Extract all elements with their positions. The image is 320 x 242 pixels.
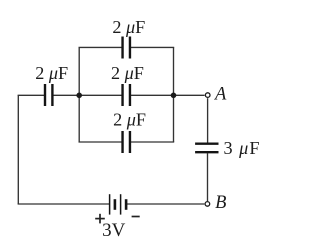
node: left junction dot	[76, 93, 82, 99]
wire: bottom branch right segment	[131, 141, 174, 143]
wire: node A down to C5 top plate	[207, 98, 209, 142]
wire: middle branch left segment	[79, 94, 121, 96]
wire: right junction to node A	[174, 94, 205, 96]
svg-text:2 μF: 2 μF	[35, 63, 68, 83]
battery BT1 short plate (left cell)	[114, 199, 117, 210]
wire: top-left horizontal from corner to C1	[18, 94, 44, 96]
wire: left vertical (outer loop left side)	[17, 95, 19, 204]
capacitor C5 3uF (right, horizontal plates)	[195, 144, 218, 153]
wire: top branch right segment	[131, 46, 174, 48]
capacitor C2 2uF (top branch)	[123, 37, 130, 59]
wire: top branch left segment	[79, 46, 122, 48]
node: right junction dot	[171, 93, 177, 99]
battery BT1 long plate (right cell)	[120, 194, 122, 214]
wire: bottom horizontal, left corner to battery	[18, 203, 110, 205]
label battery polarity - (drawn)	[132, 216, 140, 218]
battery BT1 long plate (left cell)	[109, 194, 111, 214]
wire: parallel block left vertical	[78, 47, 80, 142]
svg-text:2 μF: 2 μF	[113, 110, 146, 130]
node A terminal (open circle)	[205, 93, 210, 98]
capacitor C1 2uF (left, vertical plates)	[45, 84, 52, 106]
wire: bottom branch left segment	[79, 141, 122, 143]
svg-text:B: B	[215, 193, 226, 213]
wire: middle branch right segment	[131, 94, 174, 96]
svg-text:A: A	[213, 85, 227, 105]
svg-text:2 μF: 2 μF	[112, 17, 145, 37]
svg-text:3 μF: 3 μF	[224, 138, 260, 158]
battery BT1 short plate (right cell)	[125, 199, 128, 210]
label battery polarity + (drawn)	[95, 214, 105, 224]
capacitor C3 2uF (middle branch)	[123, 84, 130, 106]
node B terminal (open circle)	[205, 202, 210, 207]
wire: C1 right plate to left junction	[53, 94, 79, 96]
svg-text:3V: 3V	[102, 220, 126, 241]
wire: C5 bottom plate down to node B	[207, 153, 209, 201]
wire: parallel block right vertical	[173, 47, 175, 142]
capacitor C4 2uF (bottom of parallel block)	[123, 131, 130, 153]
wire: battery to node B	[126, 203, 204, 205]
svg-text:2 μF: 2 μF	[111, 63, 144, 83]
